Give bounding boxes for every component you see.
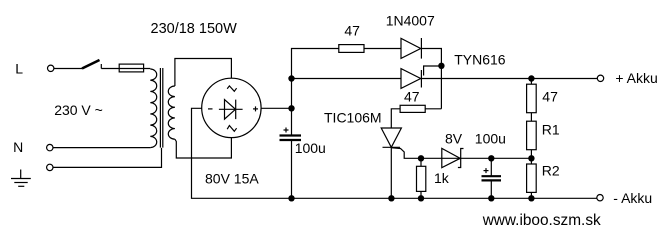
- resistor 47 top: [339, 45, 364, 53]
- svg-text:47: 47: [404, 88, 420, 104]
- node TYN rail-column: [528, 75, 534, 81]
- svg-text:TYN616: TYN616: [454, 51, 506, 67]
- transformer T1 secondary winding: [168, 86, 175, 139]
- svg-text:N: N: [13, 139, 23, 155]
- ground symbol: [20, 170, 22, 179]
- capacitor C1 100u plates: [280, 134, 302, 136]
- diode D1 1N4007: [401, 38, 421, 58]
- svg-text:+ Akku: + Akku: [615, 70, 657, 86]
- terminal L: [48, 65, 54, 71]
- TIC106M cathode down: [390, 147, 392, 198]
- wire secondary top to bridge: [175, 59, 232, 87]
- svg-text:- Akku: - Akku: [613, 190, 652, 206]
- svg-text:1k: 1k: [434, 170, 450, 186]
- svg-text:47: 47: [542, 89, 558, 105]
- node 1k-bus: [418, 195, 424, 201]
- wire L to switch: [54, 68, 82, 70]
- wire switch to fuse: [101, 68, 150, 70]
- node gate feed dot: [438, 63, 444, 69]
- svg-text:100u: 100u: [295, 140, 326, 156]
- node bus-TYN rail: [288, 75, 294, 81]
- wire N to primary bottom: [53, 147, 150, 149]
- capacitor C1 plus sign: [284, 129, 289, 131]
- node C2-bus: [488, 195, 494, 201]
- resistor 47 gate: [400, 105, 425, 112]
- node R2-bus: [528, 195, 534, 201]
- terminal N: [47, 144, 53, 150]
- vertical gate feed: [421, 49, 441, 109]
- bridge ac tilde top: [227, 86, 236, 91]
- node gate rail-1k: [418, 155, 424, 161]
- capacitor C2 100u: [490, 158, 492, 175]
- resistor R1: [527, 121, 537, 150]
- fuse F1: [119, 64, 143, 72]
- svg-text:100u: 100u: [475, 130, 506, 146]
- resistor 1k: [420, 158, 422, 166]
- svg-text:8V: 8V: [445, 130, 463, 146]
- TYN rail left: [292, 78, 402, 80]
- node zener-C2: [488, 155, 494, 161]
- plus bus vertical upper: [292, 49, 339, 136]
- TYN616 gate: [424, 66, 442, 76]
- TIC106M gate: [392, 148, 531, 159]
- svg-text:230 V ~: 230 V ~: [54, 102, 103, 118]
- bridge minus sign: [208, 108, 213, 110]
- svg-text:R2: R2: [542, 163, 560, 179]
- resistor 47 column: [530, 79, 532, 85]
- capacitor C2 plus sign: [484, 170, 489, 172]
- svg-text:R1: R1: [542, 122, 560, 138]
- terminal earth: [47, 164, 53, 170]
- bridge rectifier B1: [202, 78, 261, 137]
- thyristor V2 TIC106M: [381, 128, 401, 147]
- node cap C1 - bottom bus: [288, 195, 294, 201]
- terminal -Akku: [597, 195, 603, 201]
- wire secondary bottom to bridge: [175, 138, 232, 158]
- zener D2 8V: [442, 148, 460, 167]
- svg-text:47: 47: [344, 23, 360, 39]
- bridge ac tilde bottom: [227, 126, 236, 132]
- wire bridge plus to bus: [261, 107, 291, 109]
- switch S1 blade: [82, 60, 100, 69]
- svg-text:TIC106M: TIC106M: [324, 109, 382, 125]
- terminal +Akku: [597, 75, 603, 81]
- transformer T1 core: [159, 68, 161, 148]
- switch S1 contact: [100, 64, 102, 69]
- node TIC cathode-bus: [388, 195, 394, 201]
- wire bridge minus to neg rail, down and along bottom bus: [192, 108, 597, 198]
- wire earth to core: [53, 148, 161, 168]
- node bus-bridge plus: [288, 105, 294, 111]
- transformer T1 primary winding: [150, 69, 156, 148]
- svg-text:1N4007: 1N4007: [386, 13, 435, 29]
- node rail-R1R2: [528, 155, 534, 161]
- resistor R2: [527, 164, 537, 192]
- thyristor V1 TYN616: [401, 69, 421, 89]
- bridge plus sign: [253, 108, 258, 110]
- TYN rail right to +Akku: [421, 78, 597, 80]
- svg-text:www.iboo.szm.sk: www.iboo.szm.sk: [482, 212, 601, 229]
- svg-text:230/18 150W: 230/18 150W: [151, 21, 238, 37]
- plus bus vertical lower: [291, 140, 293, 198]
- svg-text:80V 15A: 80V 15A: [205, 171, 259, 187]
- svg-text:L: L: [15, 61, 23, 77]
